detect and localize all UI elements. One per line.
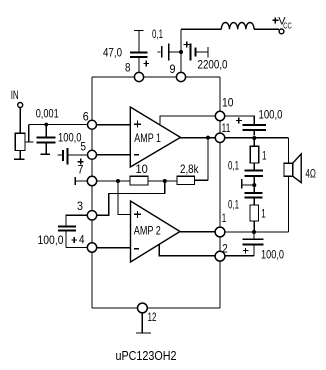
ground below input resistor — [14, 151, 25, 160]
wire pin4 to cap — [66, 247, 88, 249]
wire C0,1a to mid node — [253, 176, 255, 193]
wire pin10 to C100,0 — [225, 116, 255, 124]
svg-text:47,0: 47,0 — [103, 46, 122, 60]
wire pin2 to cap — [225, 255, 255, 257]
wire AMP2 output — [180, 231, 216, 233]
wire pin11 row to speaker — [225, 137, 289, 139]
svg-text:11: 11 — [222, 121, 231, 135]
wire R2,8k to AMP1 output — [195, 138, 209, 181]
svg-text:4: 4 — [79, 233, 85, 247]
left bus wire (pins 6,5,7,3,4 column) — [91, 77, 93, 308]
wire between R10 and R2,8k — [148, 180, 177, 182]
stub terminal left of pin 7 — [75, 177, 87, 185]
svg-text:10: 10 — [136, 162, 149, 176]
op-amp AMP 1 — [130, 107, 180, 167]
svg-text:2,8k: 2,8k — [180, 162, 199, 176]
wire to Vcc — [254, 28, 279, 30]
wire pin3 to R junction — [97, 181, 165, 215]
capacitor C 0,1 (top) — [158, 44, 182, 61]
svg-text:100,0: 100,0 — [38, 233, 64, 247]
svg-text:10: 10 — [222, 96, 234, 110]
svg-text:7: 7 — [78, 163, 84, 177]
svg-text:0,1: 0,1 — [228, 158, 239, 172]
svg-text:8: 8 — [125, 61, 131, 75]
svg-text:AMP 2: AMP 2 — [134, 224, 161, 238]
wire R1a to C0,1a — [253, 138, 255, 170]
wire R1b to pin1 row — [253, 221, 255, 232]
pin 9 terminal — [176, 72, 185, 81]
node junction R10/R2,8k — [163, 179, 167, 183]
wire pin1 row to speaker — [225, 231, 289, 233]
polarity + of 2200,0 — [184, 42, 190, 48]
wire pin5 to AMP1 - — [97, 154, 131, 156]
wire top rail — [181, 28, 221, 30]
pin 1 terminal — [215, 227, 225, 237]
wire feedback to AMP2 + input — [118, 181, 131, 215]
label +Vcc — [272, 15, 291, 30]
svg-text:12: 12 — [148, 310, 157, 324]
pin 11 terminal — [215, 133, 224, 142]
svg-text:IN: IN — [11, 88, 19, 102]
svg-text:CC: CC — [283, 20, 292, 30]
svg-text:4Ω: 4Ω — [305, 167, 316, 181]
node junction pin11/zobel — [252, 136, 256, 140]
pin 6 terminal — [88, 120, 97, 129]
wire pin7 feedback row — [97, 180, 131, 182]
capacitor C 100,0 top right — [243, 125, 267, 136]
pin 4 terminal — [87, 243, 96, 252]
pin 7 terminal — [87, 176, 96, 185]
right bus wire (pins 10,11,1,2 column) — [219, 77, 221, 308]
wire pin8 row — [92, 76, 177, 78]
node junction pin7/R10 — [116, 179, 120, 183]
pin 12 terminal — [138, 303, 148, 313]
pin 10 terminal — [215, 111, 224, 120]
bottom wire — [92, 307, 220, 309]
pin 3 terminal — [87, 211, 96, 220]
stub terminal mid — [242, 179, 255, 188]
svg-text:1: 1 — [262, 149, 267, 163]
wire pin2 feedback to AMP2 slope — [159, 244, 215, 256]
node junction mid zobel — [252, 183, 256, 187]
wire pin9 to right bus — [186, 76, 221, 78]
inductor L1 — [221, 22, 254, 29]
capacitor C 0,1 lower — [245, 193, 263, 197]
polarity + pin4 cap — [71, 237, 77, 243]
svg-text:3: 3 — [77, 199, 83, 213]
+Vcc terminal — [279, 29, 284, 34]
speaker LS 4ohm — [284, 138, 301, 232]
node junction at caps/pin9 — [179, 50, 183, 54]
wire pin4 to AMP2 - — [97, 247, 131, 249]
node junction pin1/cap — [252, 230, 256, 234]
svg-text:uPC123OH2: uPC123OH2 — [116, 348, 177, 363]
polarity + bottom right cap — [243, 248, 249, 254]
wire input L to top — [25, 125, 88, 143]
svg-text:0,1: 0,1 — [152, 27, 163, 41]
resistor R 1 (lower) — [250, 205, 259, 221]
svg-text:100,0: 100,0 — [261, 248, 284, 262]
resistor R 10 — [130, 176, 148, 185]
wire pin3 left to cap — [66, 215, 88, 226]
capacitor C 100,0 bottom right — [243, 232, 264, 256]
svg-text:1: 1 — [222, 211, 227, 225]
wire AMP1 output — [180, 137, 216, 139]
pin 2 terminal — [215, 251, 225, 261]
svg-text:9: 9 — [170, 62, 176, 76]
capacitor C 100,0 at pin 5 — [58, 148, 88, 165]
resistor R 1 (upper) — [250, 146, 258, 163]
polarity + top right cap — [236, 117, 242, 123]
wire C0,1b to R1b — [253, 197, 255, 205]
pin 5 terminal — [88, 150, 97, 159]
svg-text:0,1: 0,1 — [228, 197, 239, 211]
op-amp AMP 2 — [131, 201, 181, 262]
capacitor C 0,001 — [37, 125, 56, 155]
svg-text:AMP 1: AMP 1 — [134, 131, 161, 145]
wire pin6 to AMP1 + — [97, 124, 131, 126]
resistor R input — [15, 133, 25, 150]
capacitor C 100,0 at pins 3-4 — [58, 227, 76, 248]
resistor R 2,8k — [177, 176, 195, 184]
pin 8 terminal — [134, 72, 143, 81]
svg-text:100,0: 100,0 — [259, 107, 283, 121]
svg-text:5: 5 — [81, 140, 87, 154]
capacitor C 47,0 at pin 8 — [130, 31, 149, 73]
svg-text:100,0: 100,0 — [58, 131, 82, 145]
wire bootstrap pin10 to AMP1 slope — [160, 116, 216, 124]
svg-text:1: 1 — [261, 207, 266, 221]
node junction input/cap — [44, 123, 48, 127]
ground at pin 12 — [136, 313, 151, 333]
svg-text:0,001: 0,001 — [36, 106, 59, 120]
wire pin9 riser — [180, 29, 182, 72]
node junction AMP1 out — [206, 136, 210, 140]
wire input drop — [19, 108, 21, 134]
capacitor C 2200,0 — [191, 44, 209, 61]
svg-text:2200,0: 2200,0 — [198, 57, 228, 71]
capacitor C 0,1 upper — [245, 170, 264, 176]
